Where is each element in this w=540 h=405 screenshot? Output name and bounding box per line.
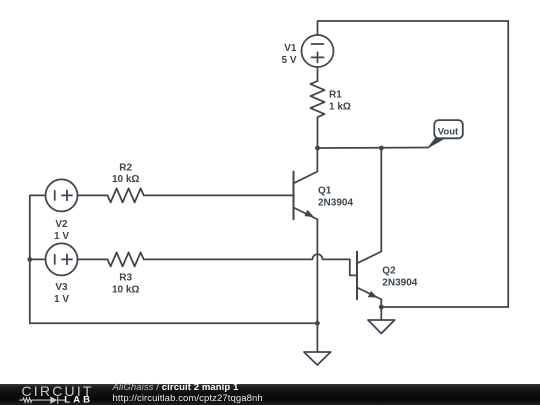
wire V2 left to left rail bbox=[30, 195, 46, 323]
wire R1 to node bbox=[317, 117, 319, 148]
svg-text:2N3904: 2N3904 bbox=[382, 277, 417, 288]
wire R3 to Q2 base with hop bbox=[144, 254, 356, 275]
ground Q2 bbox=[368, 320, 395, 334]
voltage source V3 bbox=[46, 243, 78, 275]
svg-text:R3: R3 bbox=[119, 273, 132, 284]
transistor Q2 bbox=[357, 148, 381, 299]
wire bottom-right to Q2 emitter node bbox=[381, 306, 508, 308]
wire Q1 base bbox=[144, 194, 294, 196]
label R3 10k bbox=[112, 273, 139, 296]
voltage source V1 bbox=[302, 35, 334, 67]
footer bar bbox=[0, 384, 540, 405]
svg-text:V3: V3 bbox=[55, 282, 68, 293]
wire V1 to R1 bbox=[317, 67, 319, 81]
svg-text:V1: V1 bbox=[284, 43, 297, 54]
resistor R1 bbox=[310, 81, 324, 117]
wire right rail bbox=[507, 21, 509, 307]
resistor R2 bbox=[108, 188, 144, 202]
svg-text:1 kΩ: 1 kΩ bbox=[329, 102, 351, 113]
label V3 1V bbox=[54, 282, 69, 305]
wire V2 to R2 bbox=[78, 194, 108, 196]
label Q1 2N3904 bbox=[318, 185, 353, 208]
svg-text:2N3904: 2N3904 bbox=[318, 198, 353, 209]
label V1 5V bbox=[281, 43, 296, 66]
svg-text:Vout: Vout bbox=[438, 126, 459, 137]
wire node to Vout bbox=[318, 147, 429, 150]
label R1 1k bbox=[329, 90, 351, 113]
node junction dot A bbox=[315, 146, 320, 151]
label V2 1V bbox=[54, 219, 69, 242]
svg-text:1 V: 1 V bbox=[54, 231, 69, 242]
wire Q1 emitter down bbox=[316, 219, 318, 352]
footer text line 1 bbox=[113, 382, 239, 393]
resistor R3 bbox=[108, 252, 144, 266]
footer text line 2 bbox=[113, 393, 263, 404]
node junction dot B bbox=[379, 146, 384, 151]
Vout flag pointer bbox=[428, 138, 446, 148]
svg-text:V2: V2 bbox=[55, 219, 68, 230]
label Q2 2N3904 bbox=[382, 265, 417, 288]
junction dot Q1 emitter / bottom rail bbox=[315, 321, 320, 326]
Vout flag box bbox=[434, 120, 463, 138]
transistor Q1 bbox=[294, 148, 318, 219]
ground main bbox=[304, 352, 331, 365]
wire bottom rail bbox=[30, 322, 318, 324]
junction dot V3 left bbox=[27, 257, 32, 262]
svg-text:LAB: LAB bbox=[64, 395, 93, 405]
wire V3 left bbox=[30, 258, 46, 260]
svg-text:10 kΩ: 10 kΩ bbox=[112, 285, 139, 296]
svg-text:Q1: Q1 bbox=[318, 185, 332, 196]
wire V3 to R3 bbox=[78, 258, 108, 260]
svg-text:10 kΩ: 10 kΩ bbox=[112, 174, 139, 185]
svg-text:5 V: 5 V bbox=[281, 55, 296, 66]
svg-text:Q2: Q2 bbox=[382, 265, 396, 276]
junction dot Q2 emitter bbox=[379, 305, 384, 310]
voltage source V2 bbox=[46, 179, 78, 211]
label R2 10k bbox=[112, 162, 139, 185]
CircuitLab logo bbox=[0, 382, 110, 405]
wire Q2 emitter to ground bbox=[380, 299, 382, 320]
wire top rail bbox=[318, 21, 509, 35]
svg-text:R1: R1 bbox=[329, 90, 342, 101]
svg-text:R2: R2 bbox=[119, 162, 132, 173]
svg-text:1 V: 1 V bbox=[54, 294, 69, 305]
